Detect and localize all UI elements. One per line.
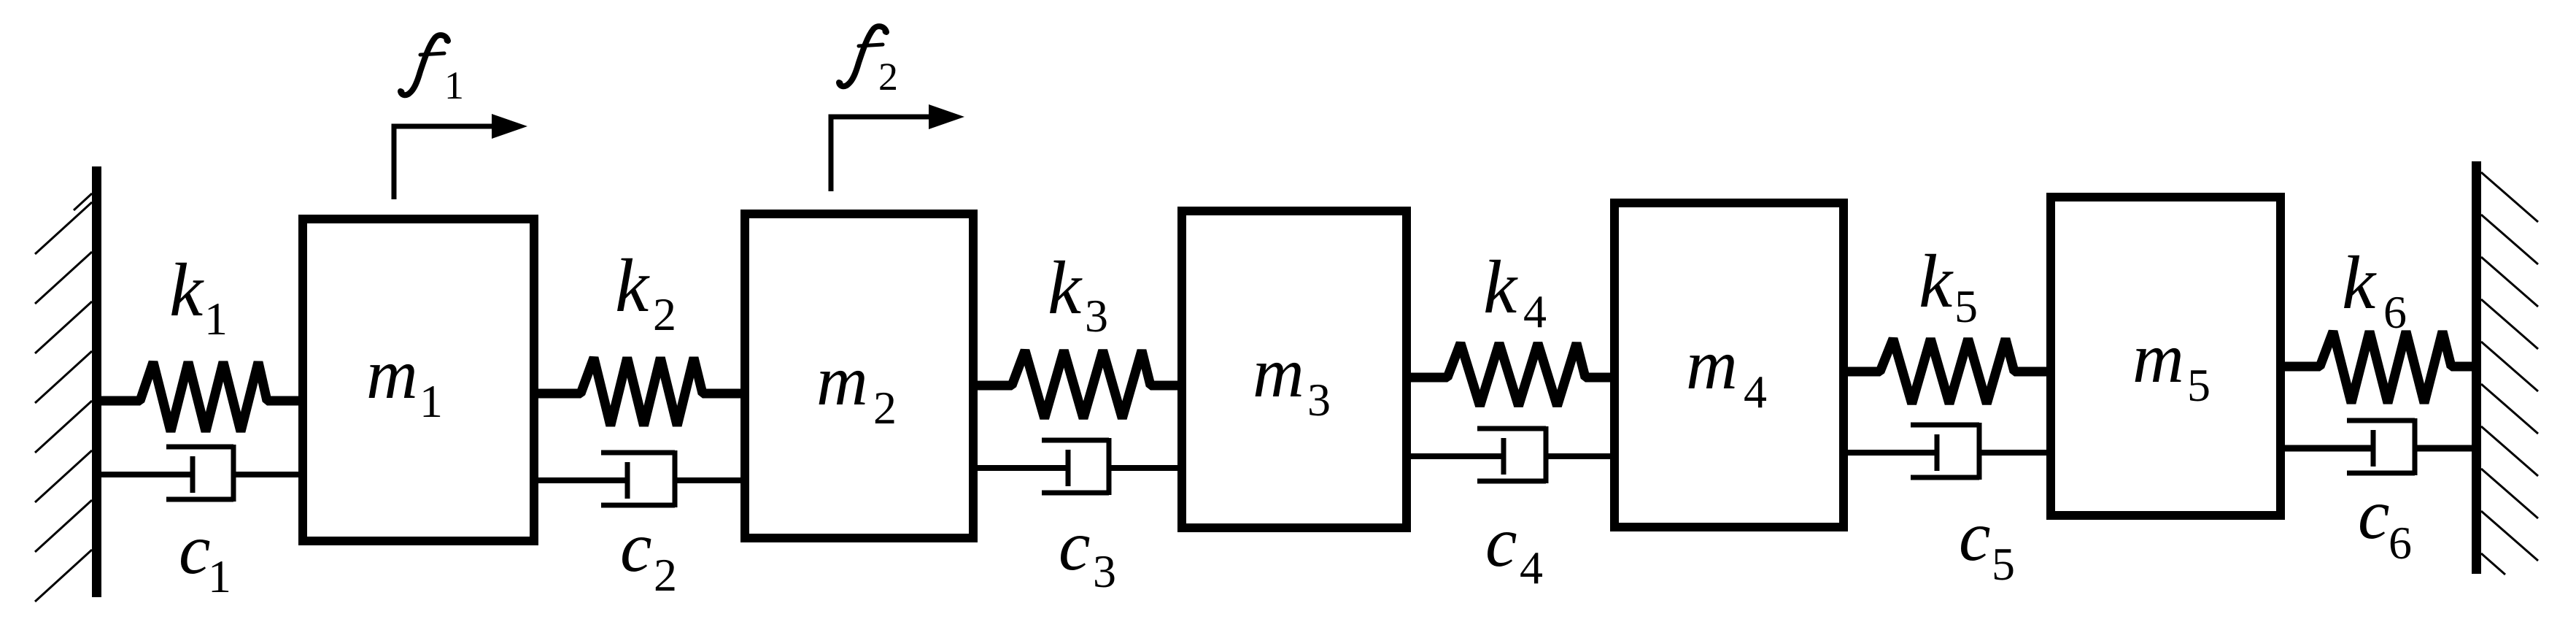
svg-text:2: 2	[873, 382, 897, 434]
svg-text:1: 1	[419, 375, 443, 427]
svg-text:m: m	[816, 342, 868, 421]
svg-text:m: m	[2132, 319, 2184, 398]
damper c1	[101, 445, 298, 502]
svg-text:k: k	[169, 248, 204, 332]
svg-text:6: 6	[2389, 517, 2412, 569]
svg-text:k: k	[615, 244, 650, 328]
svg-text:3: 3	[1093, 545, 1116, 597]
svg-text:3: 3	[1085, 290, 1108, 342]
mass m3	[1182, 211, 1407, 528]
damper c4	[1411, 426, 1610, 483]
svg-text:k: k	[1048, 246, 1083, 330]
svg-text:c: c	[1485, 503, 1517, 582]
label f1	[398, 35, 451, 95]
svg-text:c: c	[620, 508, 652, 587]
svg-text:5: 5	[1954, 280, 1978, 332]
svg-text:k: k	[1919, 239, 1954, 323]
mass m1	[303, 219, 534, 541]
force arrow f2	[831, 117, 932, 191]
force arrow f1	[394, 126, 494, 199]
svg-text:6: 6	[2383, 286, 2407, 338]
svg-text:c: c	[1059, 507, 1091, 585]
svg-text:2: 2	[878, 55, 898, 99]
damper c2	[538, 450, 740, 507]
spring k6	[2285, 331, 2472, 403]
mass m4	[1614, 203, 1844, 527]
spring k2	[538, 358, 740, 426]
spring k5	[1848, 339, 2046, 404]
spring k1	[101, 362, 298, 431]
svg-text:c: c	[1959, 497, 1991, 576]
left wall	[92, 166, 101, 597]
svg-text:m: m	[366, 335, 418, 414]
damper c5	[1848, 423, 2046, 480]
spring k3	[978, 350, 1177, 418]
svg-text:k: k	[2342, 241, 2377, 325]
right wall	[2472, 161, 2481, 574]
svg-text:c: c	[179, 510, 211, 589]
svg-text:k: k	[1483, 245, 1518, 329]
svg-text:4: 4	[1523, 285, 1547, 337]
svg-text:4: 4	[1744, 366, 1767, 418]
svg-text:c: c	[2358, 475, 2390, 554]
svg-text:4: 4	[1520, 542, 1543, 594]
mass m5	[2051, 197, 2281, 515]
damper c6	[2285, 418, 2472, 475]
spring k4	[1411, 343, 1610, 406]
mass m2	[745, 214, 973, 538]
svg-text:3: 3	[1307, 374, 1331, 426]
svg-text:2: 2	[654, 549, 677, 601]
svg-text:5: 5	[2187, 359, 2211, 411]
svg-text:m: m	[1686, 326, 1738, 404]
svg-text:2: 2	[653, 288, 676, 340]
damper c3	[978, 438, 1177, 495]
right wall hatching	[2481, 172, 2538, 222]
svg-text:1: 1	[208, 550, 231, 602]
svg-text:1: 1	[444, 64, 464, 107]
label f2	[837, 26, 889, 86]
svg-text:m: m	[1253, 334, 1304, 412]
svg-text:1: 1	[204, 293, 228, 345]
left wall hatching	[74, 193, 92, 210]
svg-text:5: 5	[1992, 538, 2015, 590]
